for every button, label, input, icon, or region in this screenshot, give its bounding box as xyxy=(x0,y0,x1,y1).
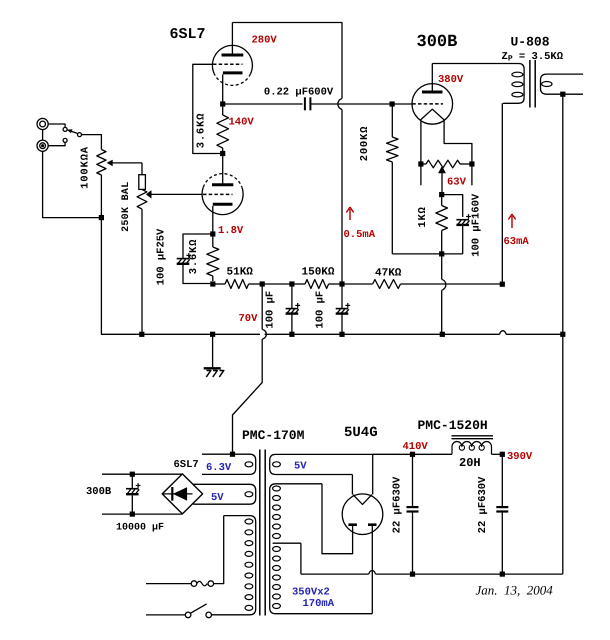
svg-text:170mA: 170mA xyxy=(303,598,335,610)
U1b cathode lead xyxy=(212,206,214,234)
svg-text:20H: 20H xyxy=(459,456,481,470)
svg-text:1.8V: 1.8V xyxy=(218,225,244,237)
svg-text:10000 µF: 10000 µF xyxy=(116,523,164,534)
wire PSU negative rail seg2 xyxy=(376,573,563,575)
wire AC line upper xyxy=(146,583,191,585)
selector switch SW1 lever with arrow xyxy=(70,131,78,134)
svg-text:6SL7: 6SL7 xyxy=(174,459,199,471)
svg-text:100 µF: 100 µF xyxy=(265,291,277,329)
capacitor C1 0.22uF600V (coupling) xyxy=(304,97,306,110)
wire C5 bottom xyxy=(462,226,464,254)
wire 70V line to heater winding xyxy=(233,339,263,454)
svg-text:22 µF630V: 22 µF630V xyxy=(477,476,489,533)
T1 core xyxy=(259,450,261,616)
svg-text:Jan. 13, 2004: Jan. 13, 2004 xyxy=(476,583,554,598)
capacitor C4 100uF (filter) xyxy=(341,284,343,308)
junction 410V node xyxy=(410,452,415,457)
svg-text:PMC-170M: PMC-170M xyxy=(242,428,305,443)
junction row to OPT B+ node xyxy=(500,282,505,287)
U1b grid (dashed) xyxy=(203,193,233,195)
capacitor C8 22uF630V (output) xyxy=(501,454,503,506)
junction rail C8 xyxy=(500,572,505,577)
V2 filament left leg down xyxy=(420,120,422,164)
potentiometer VR1 100KOhmA body xyxy=(97,150,106,176)
wire wiper to balance pot xyxy=(141,163,143,175)
resistor R3 3.6KOhm (cathode) xyxy=(212,237,214,247)
potentiometer VR2 wiper arrow xyxy=(146,191,151,198)
wire bias return bus xyxy=(392,253,462,255)
wire ground bus (left segment) xyxy=(101,218,260,335)
svg-text:0.5mA: 0.5mA xyxy=(344,229,376,241)
wire C2 bottom xyxy=(183,265,210,284)
wire U1a grid tie to node xyxy=(193,64,220,153)
VR3 stub right xyxy=(471,164,473,185)
svg-text:300B: 300B xyxy=(86,486,112,498)
wire secondary return drop xyxy=(562,94,564,334)
wire row left segment xyxy=(213,283,225,285)
fuse F1 xyxy=(191,581,197,587)
current arrow 63mA xyxy=(508,214,515,228)
svg-text:3.6KΩ: 3.6KΩ xyxy=(196,113,208,149)
wire row seg3 xyxy=(262,283,292,285)
wire filament DC - stub xyxy=(102,513,182,515)
capacitor C6 10000uF xyxy=(131,474,133,488)
wire jack ground drop xyxy=(43,151,102,217)
junction C6 + xyxy=(130,472,135,477)
wire SRPP mid to U1b plate xyxy=(222,156,224,185)
junction VR1 ground tee xyxy=(99,215,104,220)
junction SRPP mid node xyxy=(220,151,225,156)
wire-hop rail over plate lead xyxy=(369,571,376,575)
capacitor C2 100uF25V (bypass) xyxy=(177,258,190,260)
U1b cathode bar xyxy=(213,203,233,206)
selector switch SW1 contact a xyxy=(63,127,67,131)
wire 280V top rail xyxy=(232,23,342,99)
svg-text:350Vx2: 350Vx2 xyxy=(292,587,330,599)
ground symbol xyxy=(212,334,214,367)
inductor L1 choke PMC-1520H xyxy=(413,453,453,455)
T1 primary winding xyxy=(212,516,256,615)
T1 350Vx2 HT winding xyxy=(270,484,373,614)
svg-text:51KΩ: 51KΩ xyxy=(227,267,254,279)
wire-hop B+ vertical over coupling line xyxy=(338,99,342,110)
svg-text:5V: 5V xyxy=(211,492,224,504)
resistor R2 3.6KOhm (SRPP) xyxy=(222,107,224,115)
wire fuse to primary xyxy=(214,516,224,584)
capacitor C5 100uF160V xyxy=(456,219,469,221)
potentiometer VR1 wiper arrow xyxy=(107,160,112,166)
svg-text:6SL7: 6SL7 xyxy=(170,26,206,43)
svg-text:150KΩ: 150KΩ xyxy=(302,267,335,279)
wire-hop bus over B+ drop xyxy=(500,331,507,335)
V3 filament right lead xyxy=(372,454,374,494)
svg-text:140V: 140V xyxy=(229,117,255,129)
capacitor C7 22uF630V (input) xyxy=(412,454,414,506)
svg-text:6.3V: 6.3V xyxy=(206,462,232,474)
wire grid node to 300B xyxy=(392,103,412,105)
RCA input jack J2 (bottom) xyxy=(37,140,48,151)
V3 filament (vee) xyxy=(353,495,372,505)
wire AC line lower xyxy=(146,614,185,616)
wire VR2 bottom to ground bus xyxy=(141,209,143,334)
OPT T2 core xyxy=(529,60,531,108)
junction bus to PSU negative xyxy=(560,332,565,337)
junction bus C3 xyxy=(289,332,294,337)
power switch SW2 xyxy=(185,612,191,618)
svg-text:47KΩ: 47KΩ xyxy=(375,268,402,280)
VR3 stub left xyxy=(420,164,422,185)
svg-text:100 µF160V: 100 µF160V xyxy=(471,193,483,257)
wire OPT primary return drop xyxy=(501,103,503,284)
V2 plate bar xyxy=(422,91,443,94)
svg-text:410V: 410V xyxy=(403,441,429,453)
svg-text:3.6KΩ: 3.6KΩ xyxy=(188,239,200,275)
junction heater-bias tap xyxy=(230,452,235,457)
svg-text:100 µF25V: 100 µF25V xyxy=(156,228,168,285)
junction secondary return xyxy=(560,92,565,97)
svg-text:1KΩ: 1KΩ xyxy=(417,206,429,227)
junction bus VR2 xyxy=(139,332,144,337)
junction cathode bias node xyxy=(439,192,444,197)
wire selector to volume pot xyxy=(82,135,102,150)
V3 plate bar right xyxy=(368,523,377,526)
svg-text:100 µF: 100 µF xyxy=(315,291,327,329)
triode U1b 6SL7 envelope (dashed top, solid bottom) xyxy=(203,174,242,188)
svg-text:390V: 390V xyxy=(507,451,533,463)
U1a plate lead to top rail xyxy=(231,23,233,54)
wire jack shields tie xyxy=(42,130,44,141)
selector switch SW1 contact b xyxy=(63,138,67,142)
wire B+ vertical to filter row xyxy=(341,110,343,285)
junction bus 300B return xyxy=(440,332,445,337)
wire row seg6 xyxy=(342,283,373,285)
RCA input jack J1 (top) xyxy=(37,118,48,129)
wire VR1 bottom to ground node xyxy=(100,175,102,218)
OPT T2 secondary winding xyxy=(541,74,584,94)
junction 300B grid node xyxy=(390,101,395,106)
V3 plate bar left xyxy=(348,523,357,526)
junction C6 - xyxy=(130,512,135,517)
junction bias return node xyxy=(439,251,444,256)
wire 410V node row xyxy=(373,453,413,455)
T1 6.3V heater winding xyxy=(202,454,256,474)
wire ground bus (mid segment) xyxy=(265,333,500,335)
wire ground bus (right segment) xyxy=(506,333,563,335)
svg-text:380V: 380V xyxy=(438,74,464,86)
OPT T2 primary winding xyxy=(503,64,524,104)
wire SRPP out to coupling cap xyxy=(223,103,303,105)
wire-hop cathode return over row xyxy=(441,254,443,279)
svg-text:63mA: 63mA xyxy=(504,236,530,248)
resistor R5 150KOhm xyxy=(305,280,329,289)
U1a plate bar xyxy=(222,54,244,57)
svg-text:63V: 63V xyxy=(447,177,467,189)
bridge rectifier D1 xyxy=(162,474,202,514)
wire row seg2 xyxy=(249,283,263,285)
wire filament DC + stub xyxy=(102,473,182,475)
junction bus C4 xyxy=(339,332,344,337)
wire PSU negative rail xyxy=(301,573,369,575)
resistor R6 47KOhm xyxy=(373,280,401,289)
potentiometer VR3 hum balance xyxy=(426,160,460,168)
junction 390V node xyxy=(500,452,505,457)
junction hum pot left xyxy=(418,161,423,166)
U1b plate bar xyxy=(212,183,233,186)
svg-text:200KΩ: 200KΩ xyxy=(359,126,371,162)
svg-text:5V: 5V xyxy=(294,461,307,473)
wire V2 plate to OPT primary xyxy=(432,63,518,65)
svg-text:250K BAL: 250K BAL xyxy=(121,181,132,231)
junction rail C7 xyxy=(410,572,415,577)
T1 HT center tap xyxy=(273,542,301,544)
resistor R7 200KOhm (grid leak) xyxy=(391,104,393,137)
T1 5V rectifier heater winding xyxy=(270,454,413,474)
capacitor C3 100uF (filter) xyxy=(291,284,293,308)
triode V2 300B envelope xyxy=(412,84,453,125)
svg-text:300B: 300B xyxy=(417,33,458,52)
junction filter cap C3 node xyxy=(289,281,294,286)
wire bias node to C5 xyxy=(442,195,463,217)
V2 filament right leg down xyxy=(444,120,472,164)
V3 filament left lead xyxy=(351,475,353,495)
svg-text:PMC-1520H: PMC-1520H xyxy=(418,418,488,433)
wire row seg4 xyxy=(292,283,305,285)
U1a grid (dashed) xyxy=(213,63,243,65)
svg-text:100KΩA: 100KΩA xyxy=(80,146,92,189)
svg-text:5U4G: 5U4G xyxy=(344,425,378,441)
svg-text:22 µF630V: 22 µF630V xyxy=(392,476,404,533)
V3 right plate lead to HT bottom xyxy=(371,526,373,614)
junction bus cathode network xyxy=(210,332,215,337)
U1a cathode lead down xyxy=(222,74,224,104)
V3 left plate lead to HT top xyxy=(322,484,353,554)
T1 5V filament winding xyxy=(193,484,255,504)
triode U1a 6SL7 envelope (solid top, dashed bottom) xyxy=(212,45,252,74)
resistor R8 1KOhm (bias) xyxy=(441,195,443,206)
V2 filament (peak up) xyxy=(421,109,445,120)
wire J1 signal to selector xyxy=(48,124,65,127)
svg-text:280V: 280V xyxy=(252,35,278,47)
svg-text:70V: 70V xyxy=(239,313,259,325)
wire J2 signal to selector xyxy=(49,142,66,145)
junction SRPP output node xyxy=(220,101,225,106)
VR3 wiper arrow xyxy=(439,167,446,173)
current arrow 0.5mA xyxy=(346,207,353,220)
U1a cathode bar xyxy=(223,71,243,74)
wire cathode to bypass cap xyxy=(183,234,213,258)
wire row seg5 xyxy=(329,283,342,285)
wire rail up right side xyxy=(562,334,564,574)
svg-text:0.22 µF600V: 0.22 µF600V xyxy=(264,87,334,99)
selector switch SW1 common pole xyxy=(78,133,82,137)
junction filter cap C4 / B+ feed node xyxy=(339,281,344,286)
rectifier V3 5U4G envelope xyxy=(342,494,383,535)
potentiometer VR2 250K BAL body (rect+zigzag) xyxy=(139,175,146,190)
junction U1b cathode node xyxy=(210,231,215,236)
svg-text:U-808: U-808 xyxy=(511,35,550,50)
V2 grid (dashed) xyxy=(412,103,443,105)
junction 70V node xyxy=(260,281,265,286)
wire row seg7 xyxy=(401,283,503,285)
resistor R4 51KOhm xyxy=(225,280,249,289)
junction hum pot right xyxy=(469,161,474,166)
wire-hop 70V line over bus xyxy=(261,284,263,329)
junction cathode network to row xyxy=(210,281,215,286)
V2 plate lead up xyxy=(431,64,433,91)
wire coupling cap to 300B grid node xyxy=(310,103,392,105)
